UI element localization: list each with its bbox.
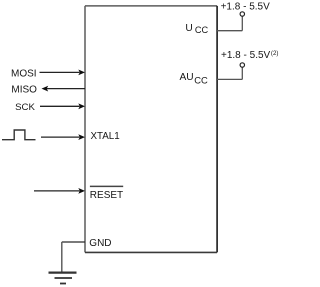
arrowhead RESET [78,188,85,194]
svg-text:(2): (2) [271,50,279,57]
svg-text:GND: GND [89,238,111,249]
wire AUCC vertical [241,67,243,79]
ground symbol [49,273,77,284]
wire AUCC horizontal [217,78,242,80]
wire GND vertical [61,242,63,272]
svg-text:CC: CC [195,25,209,35]
wire SCK [40,105,80,107]
wire MOSI [40,71,80,73]
svg-text:RESET: RESET [90,190,123,201]
svg-text:SCK: SCK [15,102,35,113]
wire MISO [47,88,86,90]
supply terminal circle UCC [240,12,244,16]
arrowhead XTAL1 [78,134,85,140]
wire UCC horizontal [217,30,242,32]
svg-text:XTAL1: XTAL1 [90,131,119,142]
svg-text:CC: CC [194,75,208,86]
svg-text:AU: AU [180,72,194,83]
wire UCC vertical [241,16,243,30]
arrowhead SCK [78,103,85,109]
wire GND horizontal [62,241,85,243]
svg-text:+1.8 - 5.5V: +1.8 - 5.5V [221,50,271,61]
svg-text:+1.8 - 5.5V: +1.8 - 5.5V [221,1,271,12]
svg-text:MOSI: MOSI [11,69,37,80]
arrowhead MOSI [78,70,85,76]
svg-text:MISO: MISO [11,85,37,96]
supply terminal circle AUCC [240,63,244,67]
wire XTAL1 [41,136,80,138]
wire RESET [34,190,80,192]
IC body rectangle [85,6,217,253]
svg-text:U: U [185,23,192,34]
clock pulse waveform [2,130,36,140]
arrowhead MISO [42,86,49,92]
